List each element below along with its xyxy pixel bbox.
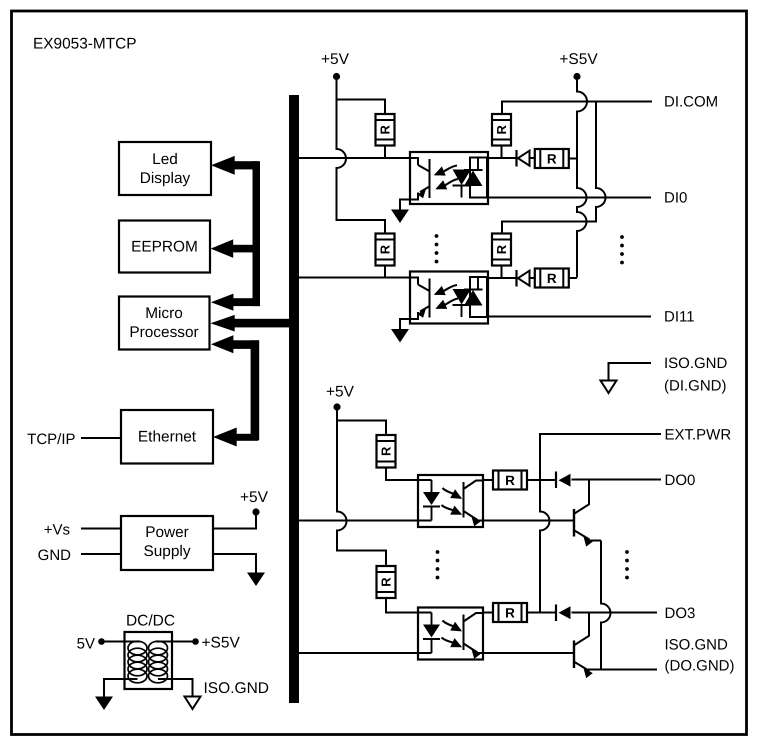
svg-text:R: R (378, 244, 393, 254)
svg-text:R: R (379, 446, 394, 456)
svg-text:GND: GND (38, 547, 72, 564)
svg-text:DO0: DO0 (665, 472, 696, 489)
svg-text:+5V: +5V (321, 51, 350, 68)
svg-text:EXT.PWR: EXT.PWR (665, 427, 732, 444)
wire R4 to +S5V line (569, 158, 577, 160)
wire Power Supply to ground (213, 554, 256, 573)
wire transformer secondary to ISO.GND (158, 679, 193, 697)
wire +5V feed with hops (DI) (337, 80, 386, 234)
ground ISO.GND DI (open) (601, 381, 617, 394)
wire GND to Power Supply (81, 553, 121, 555)
wire R6 to +S5V line (569, 277, 577, 279)
wire +5V branch to R7 (337, 421, 386, 436)
svg-text:ISO.GND: ISO.GND (204, 680, 269, 697)
wire ISO.GND (DI) (609, 363, 652, 381)
svg-text:R: R (547, 151, 557, 166)
wire +Vs to Power Supply (81, 528, 121, 530)
optocoupler U3 (DO0) (418, 475, 483, 527)
ground (U2 emitter) (391, 329, 409, 343)
svg-text:+S5V: +S5V (559, 51, 598, 68)
svg-text:(DO.GND): (DO.GND) (665, 658, 735, 675)
diode D3 (556, 472, 571, 489)
block EEPROM (119, 221, 210, 273)
wire 5V to transformer (102, 641, 141, 643)
bus bar (289, 95, 299, 703)
resistor R9 (DO0 base) (493, 471, 527, 490)
svg-text:Ethernet: Ethernet (138, 429, 197, 446)
bus arrow to Micro Processor (top) (211, 294, 260, 311)
svg-text:R: R (494, 124, 509, 134)
wire TCP/IP to Ethernet (81, 437, 121, 439)
bus arrow to Micro Processor (middle) (211, 315, 300, 332)
optocoupler U2 (DI11) (410, 272, 488, 324)
svg-text:R: R (494, 244, 509, 254)
resistor R7 (DO0 led) (377, 435, 396, 468)
svg-text:EX9053-MTCP: EX9053-MTCP (33, 36, 137, 53)
wire U2 LED to diode D2 (488, 277, 517, 279)
resistor R3 (DI.COM ch1) (492, 114, 511, 146)
svg-text:DC/DC: DC/DC (126, 613, 175, 630)
svg-text:DO3: DO3 (665, 605, 696, 622)
ellipsis DO channels (right) (625, 550, 629, 579)
wire U2 emitter to ground (400, 319, 410, 330)
wire bus to U4 cathode (298, 652, 432, 654)
resistor R10 (DO3 base) (493, 603, 527, 622)
block Micro Processor (119, 297, 210, 350)
svg-text:R: R (505, 473, 515, 488)
transistor Q2 (DO3 driver) (574, 613, 593, 678)
svg-text:+Vs: +Vs (44, 522, 70, 539)
wire R8 to U4 anode (386, 598, 432, 613)
transformer T1 DC/DC (125, 632, 173, 689)
wire ISO.GND (DO) line (588, 669, 657, 671)
diode D1 (517, 150, 530, 167)
ellipsis DI channels (right) (620, 235, 624, 264)
ellipsis DO channels (left) (436, 550, 440, 579)
wire DI.COM rail (502, 102, 652, 115)
wire DO3 line (572, 612, 658, 614)
wire U4 emitter to Q2 base (483, 652, 574, 654)
ground (power supply) (247, 573, 265, 587)
resistor R5 (DI.COM ch12) (492, 234, 511, 266)
wire bus to U3 cathode (298, 520, 432, 522)
block Ethernet (121, 410, 213, 464)
ground (dc/dc primary) (95, 697, 113, 711)
wire DI.COM feed for channel 12 (502, 102, 606, 234)
optocoupler U1 (DI0) (410, 152, 488, 204)
resistor R1 (DI0 pull-up) (376, 114, 395, 146)
svg-text:ISO.GND: ISO.GND (664, 355, 728, 372)
wire R3 to DI network (501, 146, 503, 159)
svg-text:+5V: +5V (240, 489, 269, 506)
wire bus to optocoupler U1 (298, 157, 410, 159)
wire +S5V line with hops (577, 80, 587, 278)
wire U3 collector to R9 (483, 479, 493, 481)
wire transformer primary to ground (104, 679, 138, 697)
bus arrow to Micro Processor (bottom) (211, 335, 259, 440)
svg-text:ISO.GND: ISO.GND (665, 637, 729, 654)
ground (U1 emitter) (391, 210, 409, 224)
wire D2 to R6 (530, 277, 536, 279)
wire +5V branch to R1 (337, 100, 386, 115)
transistor Q1 (DO0 driver) (574, 480, 601, 547)
ground ISO.GND (dc/dc, open) (185, 697, 201, 710)
wire +5V feed with hop (DO) (337, 411, 386, 567)
svg-text:+S5V: +S5V (202, 635, 241, 652)
wire EXT.PWR rail with hop (540, 434, 661, 613)
svg-text:Led: Led (152, 151, 178, 168)
wire U3 emitter to Q1 base (483, 520, 574, 522)
wire R5 to DI network (501, 266, 503, 279)
optocoupler U4 (DO3) (418, 608, 483, 660)
resistor R6 (DI11 series) (535, 269, 569, 288)
svg-text:DI11: DI11 (664, 309, 695, 326)
wire R9 to diode D3 (527, 479, 556, 481)
svg-text:Micro: Micro (145, 305, 183, 322)
svg-text:DI.COM: DI.COM (664, 94, 718, 111)
wire bus to optocoupler U2 (298, 277, 410, 279)
svg-text:(DI.GND): (DI.GND) (664, 378, 727, 395)
wire R7 to U3 anode (386, 468, 432, 481)
svg-text:Processor: Processor (129, 324, 198, 341)
wire R10 to diode D4 (527, 612, 556, 614)
wire U4 collector to R10 (483, 612, 493, 614)
resistor R4 (DI0 series) (535, 149, 569, 168)
svg-text:R: R (505, 605, 515, 620)
bus arrow to Led Display (211, 156, 260, 306)
svg-text:Supply: Supply (143, 543, 190, 560)
svg-text:5V: 5V (77, 636, 95, 653)
resistor R2 (DI11 pull-up) (376, 234, 395, 266)
diode D4 (556, 605, 571, 622)
svg-text:Display: Display (140, 170, 191, 187)
svg-text:R: R (378, 124, 393, 134)
wire D1 to R4 (530, 157, 536, 159)
wire DI0 line (488, 197, 651, 199)
svg-text:DI0: DI0 (664, 190, 687, 207)
wire R1 to collector line (384, 146, 386, 159)
svg-text:+5V: +5V (326, 384, 355, 401)
wire DI11 line (488, 316, 651, 318)
wire R2 to collector line (384, 266, 386, 278)
svg-text:Power: Power (145, 524, 189, 541)
block Led Display (119, 142, 211, 195)
wire Power Supply to +5V (213, 512, 256, 529)
svg-text:TCP/IP: TCP/IP (27, 431, 75, 448)
bus arrow to EEPROM (211, 239, 260, 258)
svg-text:R: R (547, 271, 557, 286)
wire DO0 line (572, 479, 662, 481)
svg-text:R: R (379, 577, 394, 587)
bus arrow to Ethernet (213, 427, 258, 446)
block Power Supply (121, 516, 213, 570)
wire U1 LED to diode D1 (488, 157, 517, 159)
resistor R8 (DO3 led) (377, 566, 396, 598)
diode D2 (517, 270, 530, 287)
wire U1 emitter to ground (400, 200, 410, 211)
wire Q1 emitter to DO.GND with hop (601, 541, 610, 670)
node +S5V (dc/dc output) (192, 638, 199, 645)
wire transformer to +S5V (156, 641, 196, 643)
svg-text:EEPROM: EEPROM (131, 239, 198, 256)
ellipsis DI channels (left) (435, 234, 439, 263)
